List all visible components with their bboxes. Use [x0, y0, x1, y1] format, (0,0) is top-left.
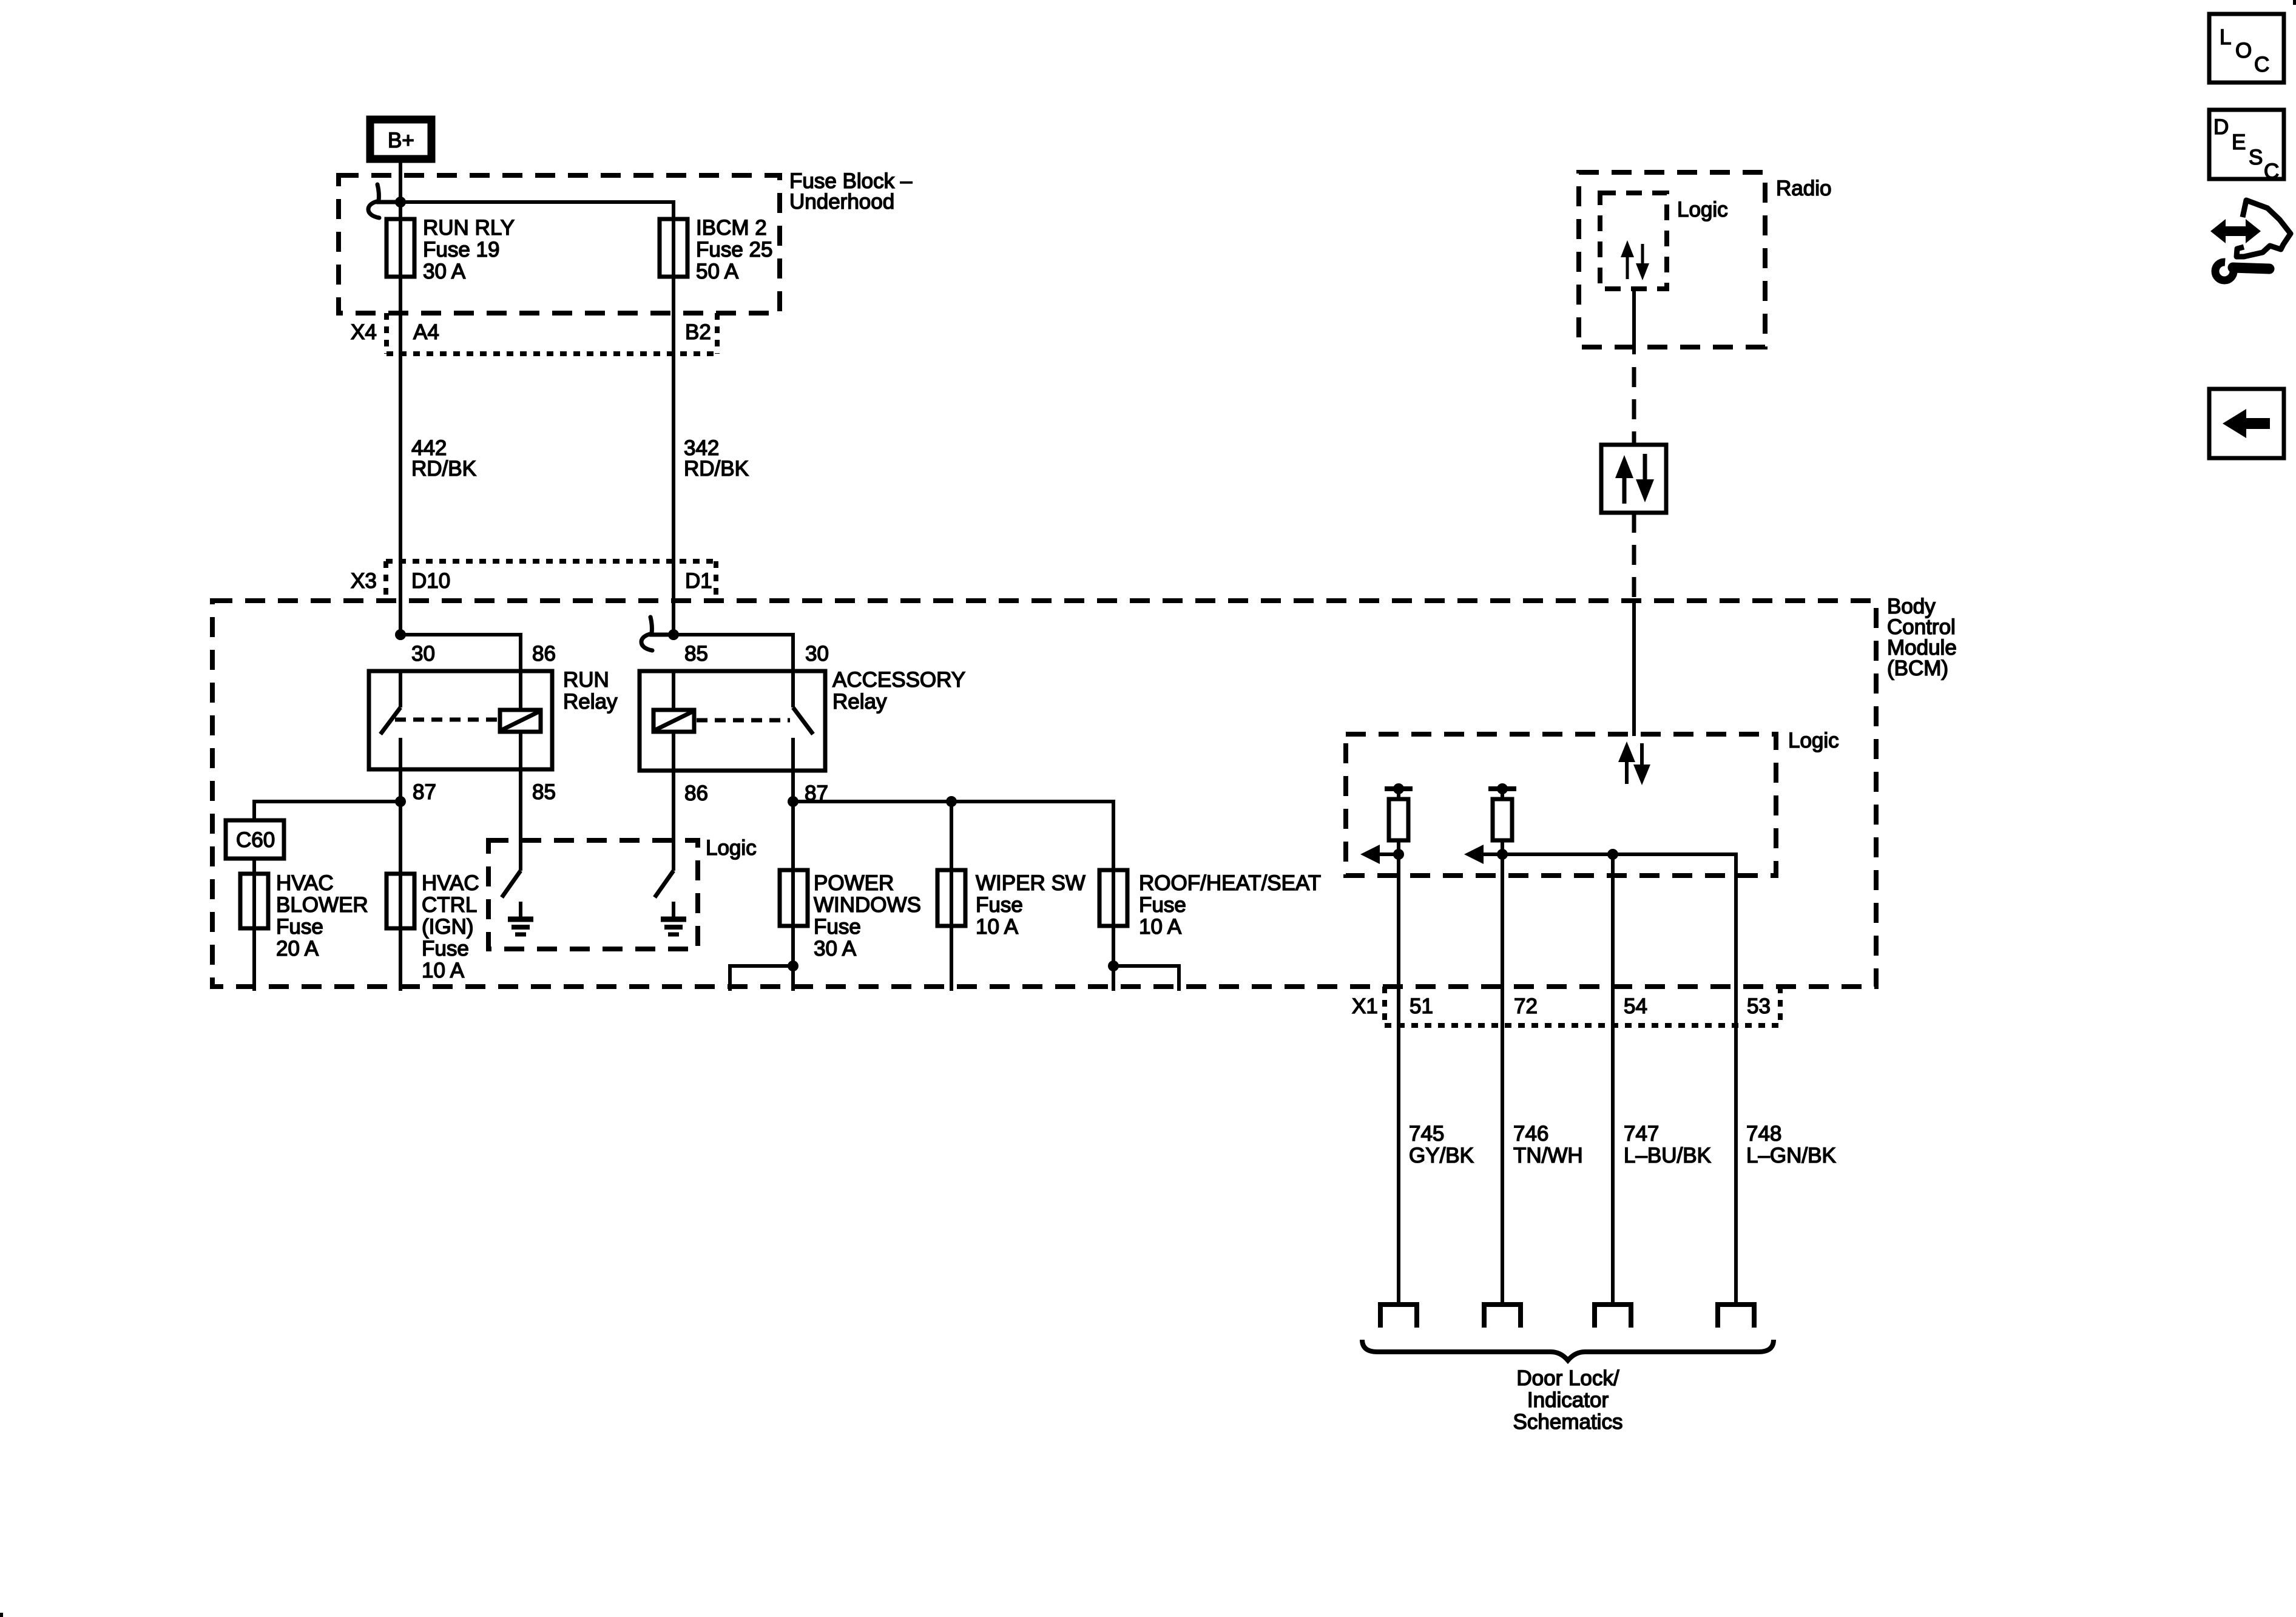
wire pin 54 to terminal: [1611, 1025, 1615, 1305]
wire label 748 L-GN/BK: [1746, 1122, 1836, 1167]
wire pin 51 to terminal: [1397, 1025, 1400, 1305]
icon service direction (arrow, part outline, wrench): [2210, 200, 2291, 280]
wire pin 72 to terminal: [1501, 1025, 1504, 1305]
wire radio logic to radio edge: [1632, 289, 1636, 354]
node J85 junction dot (ACC relay pin 85 feed): [668, 629, 679, 640]
svg-text:746: 746: [1513, 1122, 1548, 1146]
svg-text:Underhood: Underhood: [789, 190, 894, 214]
wire label 747 L-BU/BK: [1624, 1122, 1711, 1167]
svg-text:50 A: 50 A: [696, 260, 739, 283]
ACC relay coil: [653, 671, 694, 771]
svg-text:Fuse: Fuse: [276, 915, 323, 939]
dashed data wire gateway to BCM: [1632, 513, 1636, 599]
RUN relay coil driver switch: [502, 769, 521, 897]
svg-text:E: E: [2232, 130, 2246, 154]
node below POWER WINDOWS fuse: [788, 960, 799, 971]
Fuse Block - Underhood dashed box: [339, 175, 780, 313]
svg-text:Logic: Logic: [1677, 198, 1728, 221]
svg-text:51: 51: [1410, 994, 1433, 1018]
node J30 junction dot (RUN relay pin 30 feed): [395, 629, 406, 640]
svg-text:Logic: Logic: [706, 836, 757, 860]
wire rail R2 to pins 54 and 53: [1502, 854, 1736, 1025]
pull-up driver R1 (pin 51): [1385, 783, 1413, 854]
wire ACC 87 rail to fuses: [793, 802, 1113, 870]
wire to ACC relay pin 30: [674, 635, 793, 671]
label WIPER SW Fuse 10A: [976, 871, 1086, 939]
svg-text:30: 30: [411, 642, 435, 666]
svg-text:Fuse: Fuse: [422, 937, 469, 960]
svg-text:GY/BK: GY/BK: [1409, 1144, 1474, 1167]
svg-text:L–BU/BK: L–BU/BK: [1624, 1144, 1711, 1167]
ACC relay switch: [793, 671, 813, 802]
output arrow at R2 node: [1464, 845, 1502, 864]
svg-text:BLOWER: BLOWER: [276, 893, 368, 917]
node S1 junction dot: [395, 197, 406, 208]
svg-text:HVAC: HVAC: [422, 871, 479, 895]
label Body Control Module (BCM): [1887, 595, 1957, 680]
svg-text:Fuse: Fuse: [1139, 893, 1186, 917]
wire label 746 TN/WH: [1513, 1122, 1583, 1167]
serial data gateway box: [1601, 445, 1666, 513]
svg-text:ROOF/HEAT/SEAT: ROOF/HEAT/SEAT: [1139, 871, 1321, 895]
svg-text:IBCM 2: IBCM 2: [696, 216, 767, 240]
svg-text:X1: X1: [1352, 994, 1378, 1018]
node below ROOF/HEAT/SEAT fuse: [1108, 960, 1119, 971]
RUN relay actuating dashed link: [395, 718, 499, 722]
wire C60 to HVAC BLOWER fuse: [252, 859, 256, 874]
svg-text:Radio: Radio: [1776, 177, 1831, 200]
svg-text:54: 54: [1624, 994, 1647, 1018]
svg-text:747: 747: [1624, 1122, 1659, 1146]
svg-text:20 A: 20 A: [276, 937, 319, 960]
wire label 342 RD/BK: [684, 436, 749, 481]
svg-text:C60: C60: [236, 828, 275, 852]
connector X4 dotted outline: [387, 313, 717, 354]
svg-text:Fuse: Fuse: [814, 915, 861, 939]
svg-text:748: 748: [1746, 1122, 1781, 1146]
svg-text:A4: A4: [413, 320, 439, 344]
wire R2 node to pin 72: [1501, 854, 1504, 1025]
svg-text:TN/WH: TN/WH: [1513, 1144, 1583, 1167]
ground for ACC coil driver: [661, 902, 686, 934]
connector C60 box: [226, 820, 284, 859]
svg-text:Door Lock/: Door Lock/: [1516, 1366, 1619, 1390]
svg-text:RUN RLY: RUN RLY: [423, 216, 515, 240]
Body Control Module dashed box: [212, 601, 1876, 987]
svg-text:85: 85: [684, 642, 708, 666]
label Fuse Block - Underhood: [789, 169, 913, 214]
wire label 442 RD/BK: [411, 436, 476, 481]
ground for RUN coil driver: [508, 902, 533, 934]
label IBCM 2 Fuse 25 50A: [696, 216, 772, 283]
node J-wiper junction dot: [946, 796, 957, 807]
svg-text:30 A: 30 A: [423, 260, 466, 283]
RUN relay coil: [500, 671, 541, 769]
label RUN RLY Fuse 19 30A: [423, 216, 515, 283]
svg-text:Fuse 25: Fuse 25: [696, 238, 772, 262]
label ACCESSORY Relay: [832, 668, 965, 714]
svg-text:86: 86: [684, 781, 708, 805]
ACC relay actuating dashed link: [697, 718, 790, 723]
svg-text:Indicator: Indicator: [1527, 1388, 1609, 1412]
wire RUN 87 rail to C60: [254, 802, 400, 820]
svg-text:Relay: Relay: [832, 690, 887, 714]
BCM driver Logic dashed box: [488, 840, 698, 949]
wire B+ down to splice: [399, 163, 402, 202]
svg-text:72: 72: [1514, 994, 1538, 1018]
svg-text:O: O: [2235, 39, 2252, 62]
BCM Logic dashed box: [1346, 734, 1776, 876]
fuse WIPER SW 10A: [937, 802, 965, 991]
svg-text:D10: D10: [411, 569, 450, 593]
svg-text:Fuse: Fuse: [976, 893, 1023, 917]
wire stub left of POWER WINDOWS output: [730, 966, 793, 991]
terminal for circuit 748: [1718, 1305, 1754, 1328]
fuse RUN RLY Fuse 19 30A: [387, 202, 414, 635]
svg-text:Relay: Relay: [563, 690, 618, 714]
dashed data wire radio to gateway: [1632, 367, 1636, 443]
node J87B junction dot (ACC relay pin 87): [788, 796, 799, 807]
connector X3 dotted outline: [386, 561, 716, 601]
splice hop symbol at ACC relay feed: [641, 617, 674, 650]
terminal for circuit 746: [1484, 1305, 1521, 1328]
Radio dashed box: [1579, 172, 1765, 347]
svg-text:C: C: [2264, 160, 2279, 183]
node rail junction for pin 54: [1607, 849, 1618, 860]
splice hop symbol at node S1: [368, 184, 400, 218]
node J87A junction dot (RUN relay pin 87): [395, 796, 406, 807]
fuse HVAC BLOWER 20A: [240, 874, 268, 991]
wire label 745 GY/BK: [1409, 1122, 1474, 1167]
svg-text:X3: X3: [351, 569, 377, 593]
battery feed B+ box: [370, 120, 431, 159]
wire rail to pin 54: [1611, 854, 1615, 1025]
page corner mark top-right: [2293, 0, 2296, 5]
icon DESC nav box: [2209, 110, 2284, 183]
svg-text:(IGN): (IGN): [422, 915, 474, 939]
svg-text:(BCM): (BCM): [1887, 657, 1948, 680]
svg-text:HVAC: HVAC: [276, 871, 334, 895]
label HVAC CTRL (IGN) Fuse 10A: [422, 871, 479, 982]
svg-text:87: 87: [413, 780, 436, 804]
svg-text:CTRL: CTRL: [422, 893, 477, 917]
serial data arrows in BCM logic: [1618, 741, 1650, 785]
wire to RUN relay pin 86: [400, 635, 521, 671]
label Door Lock/ Indicator Schematics: [1513, 1366, 1623, 1434]
svg-text:10 A: 10 A: [422, 959, 465, 982]
svg-text:RUN: RUN: [563, 668, 609, 692]
svg-text:B2: B2: [685, 320, 711, 344]
svg-text:POWER: POWER: [814, 871, 894, 895]
svg-text:Schematics: Schematics: [1513, 1410, 1623, 1434]
brace Door Lock/Indicator Schematics: [1362, 1340, 1774, 1360]
relay ACCESSORY Relay box: [640, 671, 825, 771]
icon back arrow box: [2209, 389, 2284, 458]
svg-text:WIPER SW: WIPER SW: [976, 871, 1086, 895]
node R1 output junction: [1393, 849, 1404, 860]
wire S1 to IBCM2 fuse: [400, 202, 674, 219]
svg-text:RD/BK: RD/BK: [411, 457, 476, 481]
wire stub right of ROOF/HEAT/SEAT output: [1113, 966, 1179, 991]
wire data into BCM logic: [1632, 599, 1636, 736]
svg-text:X4: X4: [351, 320, 377, 344]
terminal for circuit 745: [1380, 1305, 1417, 1328]
page corner mark bottom-left: [0, 1613, 3, 1617]
svg-text:WINDOWS: WINDOWS: [814, 893, 921, 917]
svg-text:ACCESSORY: ACCESSORY: [832, 668, 965, 692]
svg-text:D1: D1: [685, 569, 712, 593]
label ROOF/HEAT/SEAT Fuse 10A: [1139, 871, 1321, 939]
svg-text:10 A: 10 A: [1139, 915, 1182, 939]
wire R1 node to pin 51: [1397, 854, 1400, 1025]
svg-text:53: 53: [1747, 994, 1771, 1018]
relay RUN Relay box: [369, 671, 552, 769]
svg-text:745: 745: [1409, 1122, 1444, 1146]
label POWER WINDOWS Fuse 30A: [814, 871, 921, 960]
node R2 output junction: [1497, 849, 1508, 860]
RUN relay switch: [380, 671, 400, 802]
svg-text:Logic: Logic: [1788, 729, 1839, 752]
svg-text:RD/BK: RD/BK: [684, 457, 749, 481]
svg-text:B+: B+: [388, 129, 414, 152]
svg-text:10 A: 10 A: [976, 915, 1019, 939]
svg-text:S: S: [2249, 146, 2263, 169]
pull-up driver R2 (pin 72): [1488, 783, 1516, 854]
icon LOC nav box: [2209, 14, 2284, 83]
svg-text:30: 30: [805, 642, 829, 666]
svg-text:L: L: [2220, 25, 2231, 49]
serial data arrows in gateway box: [1615, 454, 1654, 504]
label HVAC BLOWER Fuse 20A: [276, 871, 368, 960]
connector X1 dotted outline: [1385, 987, 1780, 1025]
svg-text:Fuse 19: Fuse 19: [423, 238, 499, 262]
fuse ROOF/HEAT/SEAT 10A: [1099, 870, 1127, 991]
svg-text:85: 85: [532, 780, 556, 804]
svg-text:L–GN/BK: L–GN/BK: [1746, 1144, 1836, 1167]
fuse IBCM 2 Fuse 25 50A: [660, 219, 687, 635]
svg-text:86: 86: [532, 642, 556, 666]
output arrow at R1 node: [1360, 845, 1399, 864]
wire pin 53 to terminal: [1734, 1025, 1738, 1305]
ACC relay coil driver switch: [655, 771, 674, 897]
svg-text:C: C: [2254, 53, 2269, 76]
fuse HVAC CTRL (IGN) 10A: [387, 802, 414, 991]
serial data arrows in radio logic: [1621, 240, 1649, 280]
svg-text:D: D: [2213, 115, 2229, 139]
fuse POWER WINDOWS 30A: [780, 802, 808, 991]
Radio Logic dashed box: [1600, 193, 1667, 289]
label RUN Relay: [563, 668, 618, 714]
svg-text:30 A: 30 A: [814, 937, 857, 960]
terminal for circuit 747: [1595, 1305, 1631, 1328]
